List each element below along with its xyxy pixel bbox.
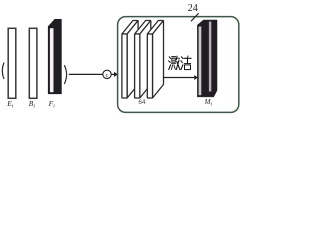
svg-text:c: c: [106, 72, 109, 79]
F_i front highlight: [50, 28, 54, 92]
concat node c: [103, 70, 111, 78]
wire to concat: [69, 73, 103, 75]
conv slab 3: [147, 21, 163, 99]
open parenthesis: [2, 63, 4, 80]
input map B_i: [29, 28, 37, 98]
wire into box: [111, 73, 114, 75]
svg-text:Ei: Ei: [6, 99, 14, 110]
svg-text:Mi: Mi: [204, 98, 213, 107]
activation arrowhead: [194, 75, 198, 80]
svg-text:64: 64: [138, 99, 146, 106]
output slab M_i (dark): [197, 20, 217, 97]
text 活 (drawn strokes): [181, 56, 191, 70]
input map F_i (dark slab): [48, 19, 61, 94]
channel tick slash: [191, 13, 199, 21]
svg-text:Fi: Fi: [48, 99, 56, 110]
M_i highlight stripe 2: [209, 22, 211, 92]
svg-text:24: 24: [188, 3, 198, 14]
conv slab 2: [135, 21, 151, 99]
input map E_i: [8, 28, 16, 98]
conv block box: [118, 17, 239, 113]
arrowhead into box: [114, 72, 118, 77]
conv slab 1: [122, 21, 138, 99]
M_i highlight stripe 1: [199, 27, 202, 96]
text 激 (drawn strokes): [169, 56, 180, 69]
svg-text:Bi: Bi: [29, 99, 36, 110]
activation arrow: [164, 77, 196, 79]
close parenthesis: [64, 65, 66, 84]
